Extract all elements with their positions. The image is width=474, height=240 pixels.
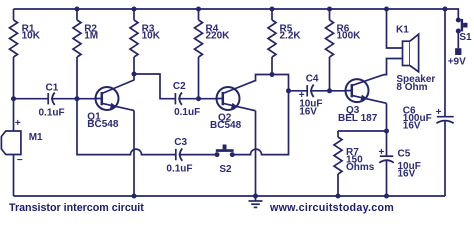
wire bottom ground rail <box>14 195 446 197</box>
capacitor C3 <box>166 137 217 174</box>
junction mic-C1 <box>11 96 16 101</box>
junction ground-Q1 emitter <box>132 194 137 199</box>
transistor Q1 <box>87 80 134 130</box>
junction R5-Q2 collector <box>270 72 275 77</box>
wire Q3 emitter to C5 node <box>386 103 388 156</box>
junction ground-Q2 emitter <box>253 194 258 199</box>
svg-text:Ohms: Ohms <box>346 162 375 173</box>
transistor Q2 <box>210 81 256 132</box>
junction R2-Q1 base <box>75 96 80 101</box>
resistor R7 <box>334 131 375 196</box>
wire Q1 collector node to C2 <box>134 74 175 99</box>
svg-text:C1: C1 <box>46 83 59 94</box>
resistor R5 <box>268 9 301 75</box>
transistor Q3 <box>338 75 387 124</box>
capacitor C4 <box>299 74 347 118</box>
svg-text:BC548: BC548 <box>210 120 242 131</box>
junction rail-R5 <box>270 7 275 12</box>
website <box>269 202 394 214</box>
svg-text:+: + <box>436 107 442 118</box>
svg-text:www.circuitstoday.com: www.circuitstoday.com <box>269 202 394 214</box>
svg-text:+: + <box>15 118 21 129</box>
svg-text:C5: C5 <box>398 149 411 160</box>
wire emitter node to R7 <box>338 130 387 132</box>
wire supply rail to speaker <box>387 9 403 48</box>
svg-text:+9V: +9V <box>448 57 466 68</box>
svg-text:Transistor intercom circuit: Transistor intercom circuit <box>9 202 144 214</box>
svg-text:C4: C4 <box>306 74 319 85</box>
svg-text:10K: 10K <box>142 31 161 42</box>
svg-text:+: + <box>379 147 385 158</box>
junction rail-speaker <box>384 7 389 12</box>
junction R6-Q3 base <box>327 88 332 93</box>
terminal S1 top <box>456 18 461 23</box>
wire Q3 collector to speaker <box>384 59 403 75</box>
wire top supply rail <box>14 9 459 20</box>
resistor R3 <box>130 9 161 74</box>
microphone M1 <box>1 99 43 196</box>
svg-text:S2: S2 <box>219 164 232 175</box>
svg-text:16V: 16V <box>299 106 317 117</box>
svg-text:0.1uF: 0.1uF <box>174 107 200 118</box>
terminal S1 bottom <box>456 29 461 34</box>
svg-text:0.1uF: 0.1uF <box>166 163 192 174</box>
junction Q3 emitter node <box>384 129 389 134</box>
svg-text:1M: 1M <box>84 31 98 42</box>
junction C4-S2 net <box>286 88 291 93</box>
ground <box>249 196 263 207</box>
svg-text:K1: K1 <box>396 25 409 36</box>
svg-text:C3: C3 <box>174 137 187 148</box>
junction rail-R3 <box>132 7 137 12</box>
capacitor C2 <box>173 81 218 118</box>
svg-text:2.2K: 2.2K <box>280 31 302 42</box>
resistor R2 <box>73 9 98 99</box>
svg-text:0.1uF: 0.1uF <box>39 107 65 118</box>
svg-text:8 Ohm: 8 Ohm <box>396 82 427 93</box>
svg-text:C2: C2 <box>173 81 186 92</box>
junction ground-C5 <box>384 194 389 199</box>
junction R3-Q1 collector <box>132 72 137 77</box>
svg-text:16V: 16V <box>398 169 416 180</box>
capacitor C6 <box>403 9 454 196</box>
battery terminal +9V <box>448 31 466 68</box>
wire S2 to C4 node with hop over Q2 emitter <box>232 91 288 155</box>
svg-text:−: − <box>17 155 23 166</box>
resistor R4 <box>195 9 231 99</box>
capacitor C5 <box>379 147 421 196</box>
terminal S2 right <box>230 152 235 157</box>
svg-text:100K: 100K <box>337 31 362 42</box>
capacitor C1 <box>14 83 98 119</box>
wire R2 node to C3 with hop over Q1 emitter <box>77 99 176 155</box>
junction rail-R2 <box>75 7 80 12</box>
svg-text:10K: 10K <box>22 31 41 42</box>
junction R4-Q2 base <box>196 96 201 101</box>
title <box>9 202 144 214</box>
svg-text:BC548: BC548 <box>87 119 119 130</box>
switch S2 <box>216 145 234 176</box>
speaker K1 <box>396 25 435 94</box>
junction rail-R6 <box>327 7 332 12</box>
svg-text:16V: 16V <box>403 121 421 132</box>
wire Q1 emitter to ground rail <box>133 111 135 197</box>
junction ground-R7 <box>336 194 341 199</box>
svg-text:220K: 220K <box>206 31 231 42</box>
resistor R6 <box>326 9 362 91</box>
junction rail-R4 <box>196 7 201 12</box>
wire Q2 collector to C4 node <box>256 75 308 91</box>
wire Q2 emitter to ground node <box>255 111 257 196</box>
resistor R1 <box>10 9 41 99</box>
svg-text:M1: M1 <box>29 132 43 143</box>
svg-text:BEL 187: BEL 187 <box>338 113 378 124</box>
terminal S2 left <box>215 152 220 157</box>
switch S1 <box>459 19 472 43</box>
junction rail-C6 <box>443 7 448 12</box>
svg-text:S1: S1 <box>459 32 472 43</box>
